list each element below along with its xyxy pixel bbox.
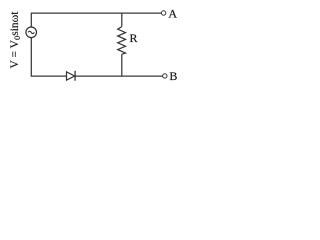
wire top rail, left wire, bottom rail (terminal A to terminal B around the left loop) [31,13,163,76]
AC source sine tilde [28,31,34,33]
svg-text:B: B [169,69,177,83]
wire resistor branch bottom lead [121,54,123,76]
diode cathode bar [74,71,76,81]
svg-text:A: A [168,7,177,21]
terminal A open circle [161,11,165,15]
resistor R zigzag [118,27,126,55]
terminal B open circle [163,74,167,78]
diode triangle (anode left, pointing right) [67,72,75,80]
svg-text:V = V0sinωt: V = V0sinωt [9,11,22,69]
svg-text:R: R [130,31,138,45]
wire resistor branch top lead [121,13,123,26]
AC source circle [26,27,37,38]
